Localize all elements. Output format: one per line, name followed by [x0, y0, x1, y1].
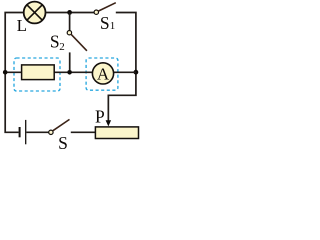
wire: S2 branch upper segment [69, 12, 71, 30]
resistor R (box element) [22, 65, 55, 80]
switch S2 contact [67, 31, 71, 35]
ammeter A [92, 63, 113, 84]
rheostat P body [95, 127, 138, 139]
svg-text:L: L [17, 16, 27, 35]
node: junction dot on top rail (S2 branch) [67, 10, 72, 15]
wire: S2 branch lower segment [69, 52, 71, 72]
svg-text:P: P [95, 106, 105, 126]
wire: top rail from lamp to switch S1 [46, 12, 95, 14]
switch S contact [49, 130, 53, 134]
wire: top rail after S1, right rail down, across and down to rheostat slider [108, 13, 136, 122]
svg-text:A: A [97, 64, 110, 83]
node: junction dot left rail / resistor row [3, 70, 8, 75]
battery cell: negative plate (short, thick) [19, 127, 21, 137]
dashed probe box around ammeter [86, 58, 118, 90]
svg-text:2: 2 [59, 41, 64, 53]
dashed probe box around resistor R [14, 58, 60, 91]
svg-text:S: S [58, 133, 68, 151]
switch S2 lever (open) [71, 34, 87, 51]
svg-text:S: S [100, 13, 110, 33]
switch S lever (open) [53, 119, 70, 130]
rheostat P (slider arrow) [106, 120, 112, 126]
switch S1 contact [94, 10, 98, 14]
battery cell: positive plate (long, thin) [25, 120, 27, 144]
wire: left side loop (top-left corner, left rail, bottom-left corner) [5, 13, 24, 133]
wire: ammeter row (left rail to resistor, resistor to ammeter, ammeter to right rail) [5, 71, 136, 73]
svg-text:S: S [50, 32, 60, 52]
svg-text:1: 1 [110, 20, 116, 32]
wire: switch S to rheostat P [71, 131, 96, 133]
lamp L [24, 2, 46, 24]
wire: battery to switch S [26, 131, 48, 133]
node: junction dot S2 branch / resistor row [67, 70, 72, 75]
node: junction dot right rail / ammeter row [134, 70, 139, 75]
switch S1 lever (open) [98, 3, 116, 11]
